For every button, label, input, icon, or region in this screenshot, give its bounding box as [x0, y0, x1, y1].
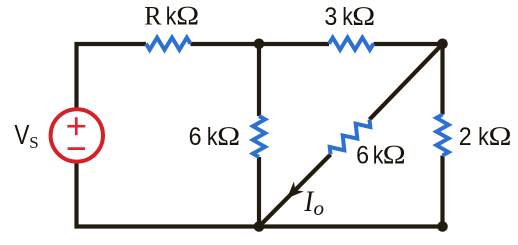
junction dot at bottom-middle node	[254, 221, 265, 232]
resistor 2k (right vertical)	[436, 115, 448, 156]
svg-text:Ω: Ω	[382, 140, 406, 170]
label 2 kOhm	[459, 122, 512, 152]
label 6 kOhm diagonal	[356, 140, 406, 170]
wire diagonal lower segment (bottom-middle node to diagonal resistor)	[259, 155, 331, 227]
resistor 6k middle (vertical)	[253, 116, 265, 157]
svg-text:6: 6	[189, 123, 202, 151]
voltage source plus sign	[67, 117, 85, 135]
svg-text:o: o	[314, 196, 325, 220]
svg-text:6: 6	[356, 142, 369, 170]
wire diagonal upper segment (diagonal resistor to top-right node)	[370, 44, 443, 120]
svg-text:Ω: Ω	[176, 2, 200, 32]
voltage source minus sign	[68, 147, 86, 150]
label 6 kOhm middle	[189, 122, 241, 152]
wire top-left segment (resistor R to top-left corner and down to source)	[77, 44, 147, 110]
label 3 kOhm	[324, 2, 375, 32]
resistor R (top left, R kOhm)	[146, 38, 191, 50]
label VS	[14, 120, 38, 152]
junction dot at top-middle node	[254, 39, 265, 50]
junction dot at bottom-right node	[437, 221, 448, 232]
svg-text:Ω: Ω	[217, 122, 241, 152]
junction dot at top-right node	[437, 39, 448, 50]
svg-text:V: V	[14, 120, 29, 151]
label R kOhm	[144, 2, 199, 32]
svg-text:Ω: Ω	[488, 122, 512, 152]
label Io	[303, 186, 324, 220]
svg-text:S: S	[29, 133, 38, 152]
svg-text:Ω: Ω	[352, 2, 376, 32]
voltage source VS (circle)	[51, 109, 103, 161]
wire left lower stub and bottom segment	[77, 160, 443, 227]
wire right vertical upper stub	[440, 44, 444, 115]
wire right vertical lower stub	[440, 156, 444, 227]
svg-text:R: R	[144, 2, 162, 31]
wire middle vertical lower stub	[257, 157, 261, 227]
current arrow Io (on diagonal, pointing to bottom-left)	[288, 184, 301, 197]
svg-text:2: 2	[459, 123, 472, 151]
resistor 6k diagonal	[330, 120, 371, 155]
resistor 3k (top right)	[329, 38, 374, 50]
wire top-middle segment (resistor R to middle node to resistor 3k)	[191, 42, 330, 46]
svg-text:3: 3	[324, 3, 337, 31]
wire top-right segment (resistor 3k to right node)	[374, 42, 443, 46]
wire middle vertical upper stub	[257, 44, 261, 116]
